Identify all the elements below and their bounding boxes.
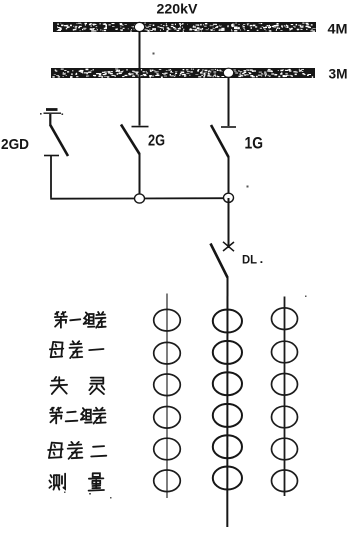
CT col1 row2 (母差一)	[154, 342, 181, 364]
busbar 4M	[53, 22, 316, 32]
wire from 4M node down through 3M to 2G	[139, 31, 141, 126]
disconnector 1G	[211, 125, 236, 157]
wire (scan specks, decorative)	[64, 53, 307, 499]
busbar 3M	[51, 68, 315, 78]
CT col3 row4 (第二组差)	[272, 406, 298, 428]
CT col3 row5 (母差二)	[272, 438, 298, 460]
breaker DL (cross contact)	[211, 242, 235, 278]
net label row4 第二组差	[50, 408, 106, 424]
svg-text:2GD: 2GD	[1, 136, 29, 153]
CT col1 row4 (第二组差)	[154, 407, 181, 429]
net label row3 失灵	[51, 377, 105, 394]
svg-text:4M: 4M	[328, 21, 348, 37]
disconnector 2G	[121, 125, 149, 155]
CT col2 row3 (失灵)	[213, 372, 242, 395]
CT col1 row1 (第一组差)	[154, 309, 181, 331]
CT col2 row1 (第一组差)	[213, 310, 242, 333]
CT col2 row4 (第二组差)	[213, 404, 242, 427]
wire CT column 1	[166, 294, 168, 499]
CT col2 row5 (母差二)	[213, 435, 242, 458]
net label row1 第一组差	[55, 312, 106, 328]
earthing switch 2GD	[44, 125, 68, 156]
node on bus 4M (tap for 2G)	[134, 22, 144, 31]
CT col3 row1 (第一组差)	[272, 308, 298, 330]
CT col3 row2 (母差一)	[272, 341, 298, 363]
wire 1G to junction B	[228, 156, 230, 198]
wire junction B down to breaker DL	[228, 198, 230, 248]
wire 2GD down to horizontal tie	[50, 156, 52, 198]
CT col3 row6 (测量)	[272, 470, 298, 492]
junction node A	[135, 194, 145, 203]
svg-text:1G: 1G	[245, 134, 264, 153]
svg-text:DL: DL	[242, 252, 257, 266]
CT col1 row6 (测量)	[154, 470, 181, 492]
CT col2 row6 (测量)	[213, 467, 242, 490]
wire CT column 3	[284, 297, 286, 497]
wire horizontal tie	[50, 197, 228, 200]
svg-text:220kV: 220kV	[157, 2, 199, 18]
CT col1 row3 (失灵)	[154, 374, 181, 396]
wire breaker DL down through CT string (feeder)	[226, 277, 228, 528]
wire from 3M node down to 1G	[228, 77, 230, 126]
ground symbol (2GD earth)	[40, 110, 63, 127]
net label row2 母差一	[50, 341, 104, 358]
node on bus 3M (tap for 1G)	[223, 68, 233, 77]
CT col1 row5 (母差二)	[154, 438, 181, 460]
CT col3 row3 (失灵)	[272, 374, 298, 396]
CT col2 row2 (母差一)	[213, 341, 242, 364]
svg-text:2G: 2G	[148, 133, 165, 150]
net label row6 测量	[49, 473, 104, 490]
junction node B	[224, 193, 234, 202]
net label row5 母差二	[48, 442, 106, 459]
wire 2G to junction A	[139, 153, 141, 199]
svg-text:3M: 3M	[329, 66, 348, 82]
